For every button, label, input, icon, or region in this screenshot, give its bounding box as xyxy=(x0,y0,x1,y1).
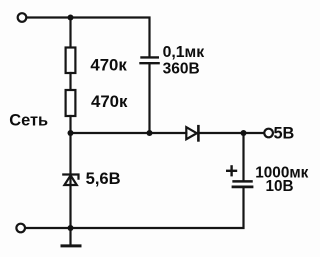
wire between resistors xyxy=(69,73,71,90)
junction node mid-left xyxy=(68,130,74,136)
ground bar xyxy=(62,244,80,247)
capacitor C2 minus plate xyxy=(233,185,252,188)
svg-text:0,1мк: 0,1мк xyxy=(163,44,205,61)
wire zener branch xyxy=(69,133,71,228)
svg-text:5,6В: 5,6В xyxy=(86,169,121,188)
terminal X2 bottom-left xyxy=(16,224,25,233)
svg-text:470к: 470к xyxy=(90,55,127,74)
capacitor C1 plates xyxy=(142,56,158,58)
terminal output 5V xyxy=(264,129,273,138)
zener VD2 triangle xyxy=(64,175,76,185)
junction node bottom rail xyxy=(68,225,74,231)
wire C1 to middle rail xyxy=(148,64,150,133)
wire R2 to node xyxy=(69,116,71,133)
wire middle rail right xyxy=(198,132,264,134)
resistor R1 470k xyxy=(66,48,76,74)
diode VD1 triangle xyxy=(186,127,197,139)
wire top rail xyxy=(27,18,150,56)
svg-text:360В: 360В xyxy=(163,61,200,78)
capacitor C2 plus plate xyxy=(234,180,252,183)
wire right branch down xyxy=(242,133,244,180)
wire C2 to bottom rail xyxy=(25,188,243,228)
ground stem xyxy=(69,228,71,245)
terminal X1 top-left xyxy=(18,13,27,22)
resistor R2 470k xyxy=(66,90,76,116)
svg-text:470к: 470к xyxy=(91,92,128,111)
junction node output xyxy=(241,130,247,136)
zener VD2 cathode bar with tick xyxy=(63,175,78,179)
wire middle rail left xyxy=(71,132,187,134)
wire left branch upper xyxy=(69,18,71,48)
diode VD1 cathode bar xyxy=(197,126,200,140)
junction node C1 bottom xyxy=(147,130,153,136)
svg-text:10В: 10В xyxy=(266,178,294,195)
junction node top xyxy=(68,15,74,21)
svg-text:Сеть: Сеть xyxy=(9,112,48,130)
svg-text:5В: 5В xyxy=(274,125,295,143)
plus sign of C2 xyxy=(227,170,236,172)
